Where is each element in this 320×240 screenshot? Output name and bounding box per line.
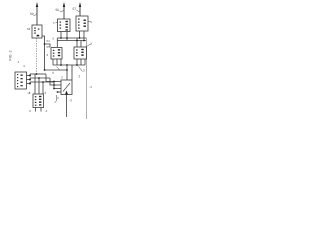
svg-text:50: 50 xyxy=(30,12,34,16)
label 40 xyxy=(27,91,31,95)
label 54 xyxy=(46,39,50,43)
bus W78 xyxy=(30,77,50,79)
svg-text:5: 5 xyxy=(90,20,92,24)
wire U6 top pin c xyxy=(42,82,44,94)
wire U7 output down xyxy=(66,95,68,118)
block U7 amplifier xyxy=(61,80,72,95)
output arrow A1 xyxy=(36,2,38,25)
label 42 xyxy=(17,60,19,64)
wire long vertical right (dashed) xyxy=(85,38,87,119)
node J5 xyxy=(83,40,85,42)
wire step2 to U7 in2 xyxy=(50,78,61,85)
wire U5 bottom pins xyxy=(52,59,54,65)
label 33 with leader xyxy=(79,67,83,72)
U3 right stub and label xyxy=(88,21,91,23)
svg-text:~4: ~4 xyxy=(88,85,92,89)
wire bus left hook to U5 top xyxy=(56,38,58,47)
wire step1 to U7 in1 xyxy=(46,74,61,82)
svg-text:3: 3 xyxy=(46,53,48,57)
wire U3 pin2 to bus xyxy=(83,31,85,41)
wire to U7 top-right xyxy=(71,65,73,80)
svg-text:3: 3 xyxy=(29,109,31,113)
svg-text:3: 3 xyxy=(52,71,54,75)
block U6 xyxy=(33,94,44,108)
wire W70 horizontal xyxy=(45,69,68,71)
svg-text:52: 52 xyxy=(27,27,31,31)
label 41 xyxy=(23,64,26,68)
svg-text:3: 3 xyxy=(61,76,63,80)
node J9 xyxy=(76,64,78,66)
label 45 xyxy=(44,109,48,113)
wire U4 bottom pins xyxy=(76,59,78,65)
wire U1 bottom (dashed) xyxy=(36,38,38,74)
node J15 xyxy=(53,88,55,90)
label 39 xyxy=(29,109,31,113)
label 59 xyxy=(90,42,92,46)
node J10 xyxy=(66,69,68,71)
wire U1 right stub xyxy=(42,36,45,70)
svg-text:FIG. 2: FIG. 2 xyxy=(9,51,13,61)
leader to arrow A3 xyxy=(77,10,80,11)
wire stub U7 in4 xyxy=(57,91,61,93)
node J7 xyxy=(60,64,62,66)
block U1 xyxy=(32,25,42,38)
wire U4 top pin2 xyxy=(80,41,82,48)
vertical FIG. 2 caption xyxy=(9,51,13,61)
svg-text:5: 5 xyxy=(52,37,54,41)
label 34 xyxy=(78,75,80,79)
output arrow A2 xyxy=(63,2,65,19)
label 38 xyxy=(44,91,46,95)
label 37 xyxy=(28,91,30,95)
leader to arrow A2 xyxy=(60,10,64,11)
output arrow A3 xyxy=(79,2,81,16)
svg-text:57: 57 xyxy=(72,7,76,11)
svg-text:4: 4 xyxy=(17,60,19,64)
block U4 xyxy=(74,47,87,59)
leader curve 36 xyxy=(55,95,57,103)
wire U4 top pin xyxy=(76,38,78,47)
svg-text:3: 3 xyxy=(78,75,80,79)
svg-text:~4: ~4 xyxy=(44,109,48,113)
block U2 xyxy=(58,19,71,32)
svg-text:3: 3 xyxy=(44,91,46,95)
bus line W40 xyxy=(57,40,86,42)
label 55 xyxy=(46,45,50,49)
svg-text:4.: 4. xyxy=(23,64,26,68)
bus line W38 xyxy=(57,37,86,39)
wire step3 to U7 in3 xyxy=(54,82,61,89)
node J17 xyxy=(38,77,40,79)
wire U6 bottom pin b xyxy=(40,108,42,112)
svg-text:54: 54 xyxy=(46,39,50,43)
bus W82 xyxy=(30,81,54,83)
label 32 with leader xyxy=(57,67,61,71)
node J12 xyxy=(44,69,46,71)
wire J1 to U5 top xyxy=(45,44,51,47)
leader to bus right xyxy=(87,44,91,47)
leader to arrow A1 xyxy=(34,13,37,16)
node J4 xyxy=(79,37,81,39)
node J11 xyxy=(36,73,38,75)
node J1 xyxy=(44,43,46,45)
svg-text:5: 5 xyxy=(53,21,55,25)
bus line W65 xyxy=(53,64,85,66)
wire U6 bottom pin a xyxy=(35,108,37,112)
wire U6 top pin a xyxy=(34,74,36,94)
label 35 xyxy=(68,99,72,103)
label 56 xyxy=(55,8,59,12)
label 50 xyxy=(30,12,34,16)
node J6 xyxy=(76,40,78,42)
node J16 xyxy=(57,91,59,93)
svg-text:3: 3 xyxy=(57,96,59,100)
wire U3 pin to bus xyxy=(79,31,81,38)
wire U6 top pin b xyxy=(38,78,40,94)
wire U2 pin to bus xyxy=(60,32,62,39)
svg-text:~3: ~3 xyxy=(68,99,72,103)
U8 output stubs with terminals xyxy=(27,75,31,77)
svg-text:3: 3 xyxy=(83,69,85,73)
label 36 xyxy=(57,96,59,100)
node J3 xyxy=(66,37,68,39)
block U8 connector xyxy=(15,72,27,89)
wire to U7 top xyxy=(66,65,68,80)
label 57 xyxy=(72,7,76,11)
node J14 xyxy=(53,84,55,86)
wire U2 pin2 to bus xyxy=(66,32,68,41)
node J8 xyxy=(66,64,68,66)
label 31 xyxy=(61,76,63,80)
bus W74 xyxy=(30,73,46,75)
label 44 xyxy=(88,85,92,89)
node J2 xyxy=(60,37,62,39)
svg-text:56: 56 xyxy=(55,8,59,12)
node J18 xyxy=(42,81,44,83)
label 30 xyxy=(46,53,48,57)
block U3 xyxy=(76,16,88,31)
label 53 (left stub of U2) xyxy=(53,21,55,25)
block U5 xyxy=(51,48,62,60)
svg-text:5: 5 xyxy=(90,42,92,46)
node J13 xyxy=(53,81,55,83)
label 52 xyxy=(27,27,31,31)
label 58 xyxy=(52,37,54,41)
